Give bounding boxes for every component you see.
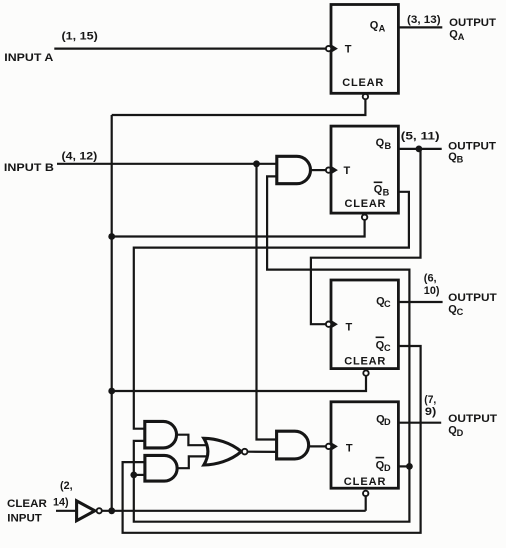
svg-text:(6,: (6, — [424, 273, 437, 285]
bubble on CLEAR input FF D — [363, 491, 368, 496]
flip-flop D (T flip-flop, U1d) — [331, 402, 398, 488]
svg-text:OUTPUT: OUTPUT — [448, 292, 497, 304]
flip-flop B (T flip-flop, U1b) — [331, 126, 398, 213]
bubble on T input FF B — [326, 167, 331, 172]
wire INPUT B down to AND gate G4 — [257, 164, 277, 440]
svg-text:(4, 12): (4, 12) — [62, 151, 98, 163]
wire G5 output to AND gate G4 — [248, 451, 277, 453]
svg-text:OUTPUT: OUTPUT — [449, 17, 496, 29]
junction clear bus — [108, 507, 115, 514]
svg-text:(2,: (2, — [60, 480, 73, 492]
wire G1 output to T of FF B — [311, 169, 326, 171]
svg-text:Q: Q — [370, 20, 379, 32]
svg-text:INPUT A: INPUT A — [4, 52, 53, 64]
svg-text:Q: Q — [376, 137, 385, 149]
wire OUTPUT QD — [398, 422, 441, 424]
wire INPUT B to AND gate G1 — [57, 163, 277, 165]
edge wedge on T input FF A — [332, 45, 338, 52]
bubble on CLEAR input FF A — [363, 94, 368, 99]
svg-text:C: C — [384, 343, 391, 353]
bubble on T input FF D — [326, 444, 331, 449]
svg-text:B: B — [385, 141, 392, 151]
svg-text:INPUT: INPUT — [7, 512, 42, 524]
wire QB-bar to AND gate G2 input 1 — [134, 192, 409, 429]
wire QD-bar to AND gate G1 input 2 — [267, 176, 409, 466]
wire OUTPUT QA — [398, 26, 442, 28]
wire G2 output to NOR gate G5 — [177, 435, 208, 446]
junction QD-bar to AND gate G3 input 2 — [130, 472, 137, 479]
wire junction to G3 input 2 — [134, 474, 145, 476]
bubble on inverter G6 output — [97, 508, 102, 513]
svg-text:D: D — [384, 463, 391, 473]
svg-text:D: D — [457, 428, 464, 438]
svg-text:(1, 15): (1, 15) — [62, 31, 99, 43]
svg-text:10): 10) — [424, 285, 440, 297]
wire QD-bar output stub — [398, 465, 409, 467]
bubble on T input FF A — [326, 46, 331, 51]
svg-text:CLEAR: CLEAR — [345, 198, 386, 210]
svg-text:A: A — [379, 24, 386, 34]
svg-text:B: B — [383, 187, 390, 197]
wire QC-bar to AND gate G3 input 1 — [123, 346, 421, 533]
wire QD-bar down and to AND gates G2/G3 input 2 — [134, 441, 410, 522]
and-gate G1 (feeds T of FF B) — [277, 156, 311, 183]
and-gate G4 (feeds T of FF D) — [277, 431, 309, 459]
svg-text:T: T — [344, 165, 351, 177]
wire QB feedback to T of FF C — [311, 149, 421, 324]
junction FF C clear to clear bus — [108, 388, 115, 395]
svg-text:CLEAR: CLEAR — [344, 356, 385, 368]
junction QD-bar feedback — [406, 463, 413, 470]
svg-text:OUTPUT: OUTPUT — [448, 413, 497, 425]
edge wedge on T input FF B — [332, 166, 338, 173]
bubble on NOR gate G5 output — [242, 449, 248, 455]
wire INPUT A to T of FF A — [54, 47, 326, 49]
and-gate G3 (QC-bar and QD-bar) — [145, 455, 177, 481]
wire FF C clear riser — [112, 376, 366, 391]
nor-gate G5 — [204, 438, 242, 465]
inverter G6 (clear buffer) — [77, 501, 95, 521]
bubble on CLEAR input FF C — [363, 370, 368, 375]
pin QC-bar label inside FF C — [376, 336, 385, 338]
svg-text:CLEAR: CLEAR — [342, 77, 383, 89]
bubble on CLEAR input FF B — [362, 215, 367, 220]
svg-text:T: T — [346, 442, 353, 454]
wire G4 output to T of FF D — [309, 445, 326, 447]
svg-text:14): 14) — [53, 496, 69, 508]
svg-text:(3, 13): (3, 13) — [407, 14, 441, 26]
flip-flop C (T flip-flop, U1c) — [331, 280, 398, 369]
flip-flop A (T flip-flop, U1a) — [331, 5, 398, 94]
svg-text:T: T — [346, 321, 353, 333]
svg-text:CLEAR: CLEAR — [7, 498, 47, 510]
wire G3 output to NOR gate G5 — [177, 456, 207, 468]
svg-text:(5, 11): (5, 11) — [401, 130, 440, 142]
pin QD-bar label inside FF D — [376, 457, 385, 459]
junction FF B clear to clear bus — [108, 233, 115, 240]
edge wedge on T input FF D — [332, 443, 338, 450]
and-gate G2 (QB-bar and QD-bar) — [145, 421, 177, 448]
edge wedge on T input FF C — [332, 321, 338, 328]
svg-text:C: C — [457, 307, 464, 317]
svg-text:INPUT B: INPUT B — [4, 162, 54, 174]
wire FF D clear riser — [365, 496, 367, 511]
pin QB-bar label inside FF B — [374, 181, 383, 183]
wire FF B clear riser — [112, 220, 365, 237]
svg-text:CLEAR: CLEAR — [344, 476, 386, 488]
svg-text:C: C — [384, 299, 391, 309]
svg-text:B: B — [457, 154, 464, 164]
bubble on T input FF C — [326, 322, 331, 327]
wire FF A clear riser — [112, 99, 366, 115]
wire inverter output to clear bus and FF D clear — [102, 510, 366, 512]
junction INPUT B branch — [253, 160, 260, 167]
svg-text:A: A — [458, 32, 465, 42]
junction QB feedback — [416, 146, 423, 153]
svg-text:9): 9) — [425, 406, 437, 418]
svg-text:(7,: (7, — [424, 394, 436, 406]
wire OUTPUT QB — [398, 148, 441, 150]
wire CLEAR INPUT to inverter — [56, 510, 76, 512]
wire CLEAR bus vertical — [111, 115, 113, 511]
wire OUTPUT QC — [398, 301, 442, 303]
svg-text:Q: Q — [374, 183, 383, 195]
svg-text:T: T — [345, 43, 352, 55]
svg-text:D: D — [384, 417, 391, 427]
